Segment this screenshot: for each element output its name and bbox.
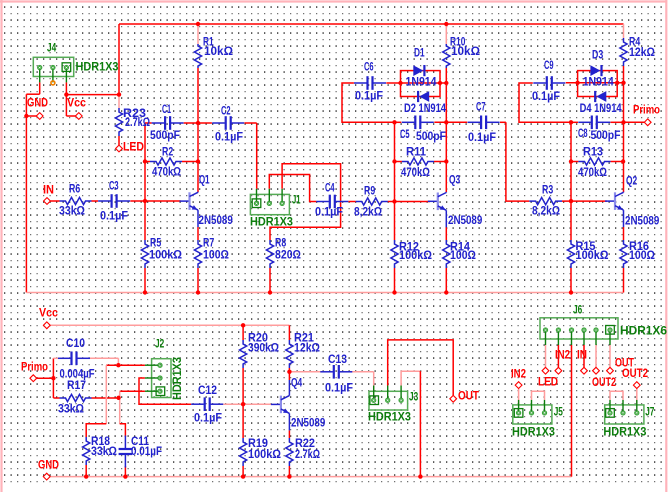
svg-text:0.1µF: 0.1µF xyxy=(194,412,222,424)
svg-text:33kΩ: 33kΩ xyxy=(58,403,84,415)
svg-text:D1: D1 xyxy=(414,47,425,59)
svg-text:2N5089: 2N5089 xyxy=(448,215,482,227)
svg-text:D2 1N914: D2 1N914 xyxy=(404,103,446,115)
svg-text:J1: J1 xyxy=(292,194,301,206)
svg-text:R13: R13 xyxy=(583,146,603,158)
svg-text:100Ω: 100Ω xyxy=(203,249,229,261)
svg-text:R2: R2 xyxy=(162,146,173,158)
svg-text:C8: C8 xyxy=(578,128,588,140)
svg-text:C3: C3 xyxy=(109,180,119,192)
svg-text:IN: IN xyxy=(43,184,54,196)
svg-text:IN2: IN2 xyxy=(511,368,526,380)
svg-text:100kΩ: 100kΩ xyxy=(248,449,281,461)
svg-text:C6: C6 xyxy=(364,61,374,73)
svg-text:GND: GND xyxy=(27,97,48,109)
svg-text:2.7kΩ: 2.7kΩ xyxy=(125,117,150,129)
svg-text:D3: D3 xyxy=(592,49,603,61)
svg-text:12kΩ: 12kΩ xyxy=(294,342,320,354)
svg-text:C12: C12 xyxy=(198,385,217,397)
svg-text:2N5089: 2N5089 xyxy=(625,215,659,227)
svg-text:100kΩ: 100kΩ xyxy=(149,249,182,261)
svg-text:Q2: Q2 xyxy=(626,175,637,187)
svg-text:500pF: 500pF xyxy=(416,131,446,143)
svg-text:C1: C1 xyxy=(162,104,171,116)
svg-text:OUT: OUT xyxy=(458,390,479,402)
svg-text:8,2kΩ: 8,2kΩ xyxy=(532,205,560,217)
svg-text:R3: R3 xyxy=(542,184,553,196)
svg-text:J3: J3 xyxy=(409,391,418,403)
svg-text:C13: C13 xyxy=(328,354,347,366)
svg-text:2N5089: 2N5089 xyxy=(199,215,233,227)
svg-text:R9: R9 xyxy=(364,185,375,197)
svg-text:820Ω: 820Ω xyxy=(275,249,301,261)
svg-text:Q1: Q1 xyxy=(199,174,210,186)
svg-text:Q4: Q4 xyxy=(291,377,303,389)
svg-text:0.1µF: 0.1µF xyxy=(100,210,128,222)
svg-text:C2: C2 xyxy=(221,105,231,117)
svg-text:R5: R5 xyxy=(150,237,162,249)
svg-text:Vcc: Vcc xyxy=(39,307,59,319)
svg-text:C9: C9 xyxy=(544,60,554,72)
svg-text:Primo: Primo xyxy=(21,361,48,373)
svg-text:0.004µF: 0.004µF xyxy=(60,368,95,380)
svg-text:HDR1X3: HDR1X3 xyxy=(512,426,555,438)
svg-text:GND: GND xyxy=(38,459,59,471)
svg-text:470kΩ: 470kΩ xyxy=(401,167,430,179)
svg-text:R7: R7 xyxy=(203,237,214,249)
svg-text:R8: R8 xyxy=(275,237,287,249)
svg-text:10kΩ: 10kΩ xyxy=(204,46,233,58)
svg-text:33kΩ: 33kΩ xyxy=(59,205,85,217)
svg-text:1N914: 1N914 xyxy=(583,76,615,88)
svg-text:J5: J5 xyxy=(554,406,564,418)
svg-text:HDR1X3: HDR1X3 xyxy=(250,216,293,228)
svg-text:100Ω: 100Ω xyxy=(629,250,655,262)
svg-text:1N914: 1N914 xyxy=(406,76,438,88)
svg-text:HDR1X3: HDR1X3 xyxy=(76,61,119,73)
svg-text:Vcc: Vcc xyxy=(67,97,87,109)
svg-text:100kΩ: 100kΩ xyxy=(576,250,609,262)
svg-text:HDR1X3: HDR1X3 xyxy=(603,426,646,438)
svg-text:IN: IN xyxy=(577,349,587,361)
svg-text:LED: LED xyxy=(123,141,144,153)
svg-text:0.1µF: 0.1µF xyxy=(315,206,343,218)
svg-text:12kΩ: 12kΩ xyxy=(629,47,655,59)
svg-text:C10: C10 xyxy=(66,338,85,350)
svg-text:Q3: Q3 xyxy=(449,174,460,186)
svg-text:0.01µF: 0.01µF xyxy=(131,446,162,458)
svg-text:IN2: IN2 xyxy=(555,349,570,361)
svg-text:OUT2: OUT2 xyxy=(592,377,616,389)
svg-text:C4: C4 xyxy=(325,182,335,194)
svg-text:R17: R17 xyxy=(67,380,86,392)
svg-text:390kΩ: 390kΩ xyxy=(248,342,279,354)
svg-text:J4: J4 xyxy=(47,42,57,54)
svg-text:0.1µF: 0.1µF xyxy=(532,91,560,103)
svg-text:HDR1X3: HDR1X3 xyxy=(368,411,411,423)
svg-text:500pF: 500pF xyxy=(591,130,621,142)
svg-text:2.7kΩ: 2.7kΩ xyxy=(295,449,320,461)
svg-text:C7: C7 xyxy=(476,101,486,113)
svg-text:OUT2: OUT2 xyxy=(622,368,648,380)
svg-text:0.1µF: 0.1µF xyxy=(355,90,383,102)
svg-text:R11: R11 xyxy=(406,146,427,158)
svg-text:LED: LED xyxy=(538,376,558,388)
svg-text:J7: J7 xyxy=(645,406,654,418)
svg-text:R6: R6 xyxy=(69,183,80,195)
svg-text:2N5089: 2N5089 xyxy=(291,417,325,429)
svg-text:0.1µF: 0.1µF xyxy=(325,382,353,394)
svg-text:0.1µF: 0.1µF xyxy=(468,132,496,144)
svg-text:470kΩ: 470kΩ xyxy=(152,166,181,178)
svg-text:500pF: 500pF xyxy=(150,130,180,142)
svg-text:470kΩ: 470kΩ xyxy=(578,167,607,179)
svg-text:C5: C5 xyxy=(400,129,410,141)
svg-text:J6: J6 xyxy=(573,304,582,316)
svg-text:100Ω: 100Ω xyxy=(450,250,476,262)
svg-text:8,2kΩ: 8,2kΩ xyxy=(354,206,382,218)
svg-text:J2: J2 xyxy=(155,338,164,350)
svg-text:D4 1N914: D4 1N914 xyxy=(580,103,622,115)
svg-text:HDR1X6: HDR1X6 xyxy=(620,325,667,337)
svg-text:33kΩ: 33kΩ xyxy=(91,446,117,458)
svg-text:10kΩ: 10kΩ xyxy=(451,46,480,58)
svg-text:0.1µF: 0.1µF xyxy=(215,131,243,143)
svg-text:HDR1X3: HDR1X3 xyxy=(172,357,184,400)
svg-text:Primo: Primo xyxy=(633,104,660,116)
svg-text:100kΩ: 100kΩ xyxy=(399,250,432,262)
